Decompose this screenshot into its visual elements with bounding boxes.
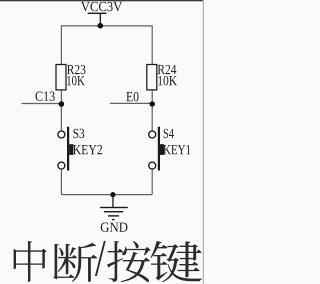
caption glyph jian (键) [150, 241, 202, 282]
junction dot VCC node [98, 23, 104, 29]
wire: top rail [61, 25, 152, 27]
label KEY1 [163, 145, 190, 154]
label C13 [35, 92, 54, 101]
label S4 [164, 129, 174, 138]
wire: S4 bottom to bottom rail [151, 170, 153, 195]
ground bar 2 [104, 211, 123, 212]
label R23 [67, 65, 85, 74]
resistor R24 body [147, 65, 157, 90]
switch S4 contact bar [158, 127, 160, 171]
label R24 [158, 65, 177, 74]
ground bar 4 [112, 219, 115, 220]
wire: right branch down to R24 [151, 25, 153, 64]
switch S3 contact bar [67, 127, 69, 171]
label 10K_R [158, 76, 177, 85]
ground bar 1 [100, 207, 128, 208]
resistor R23 body [56, 65, 66, 90]
label 10K_L [67, 76, 85, 85]
switch S4 bottom terminal [149, 162, 156, 169]
switch S4 top terminal [149, 131, 156, 138]
switch S3 actuator [69, 144, 73, 155]
label GND [101, 223, 128, 232]
wire: node C13 stub left [22, 103, 62, 105]
junction dot node C13 [59, 101, 65, 107]
junction dot node E0 [150, 101, 155, 106]
label E0 [126, 92, 138, 101]
caption glyph duan (断) [53, 243, 97, 282]
junction dot GND node [110, 192, 115, 197]
switch S3 bottom terminal [58, 162, 65, 169]
power bar symbol VCC3V [88, 13, 107, 14]
label KEY2 [73, 145, 102, 154]
caption glyph slash (/) [95, 241, 105, 276]
wire: left branch down to R23 [60, 25, 62, 64]
wire: R23 to node C13 to S3 [60, 90, 62, 131]
switch S3 top terminal [58, 131, 65, 138]
wire: R24 to node E0 to S4 [151, 90, 153, 131]
wire: node E0 stub left [110, 102, 152, 104]
switch S4 actuator [160, 144, 164, 155]
label S3 [73, 129, 84, 138]
label VCC3V [81, 2, 122, 11]
wire: S3 bottom to bottom rail [60, 170, 62, 195]
ground stub [112, 195, 113, 207]
wire: bottom rail [61, 194, 152, 196]
caption glyph zhong (中) [14, 241, 47, 282]
caption glyph an (按) [107, 241, 151, 282]
ground bar 3 [108, 215, 119, 216]
power stub [100, 14, 101, 24]
